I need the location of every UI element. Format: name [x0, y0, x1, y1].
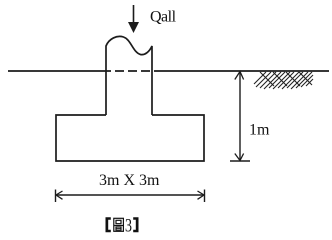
ground line dashed segment (column centerline) [102, 70, 154, 72]
svg-text:3m X 3m: 3m X 3m [99, 172, 160, 189]
bottom dimension line 3m X 3m [56, 190, 205, 203]
caption glyph tu (figure) [114, 218, 124, 231]
caption bracket right [133, 217, 138, 232]
depth dimension line 1m [230, 72, 250, 162]
svg-text:Qall: Qall [150, 9, 177, 26]
caption bracket left [106, 217, 111, 232]
footing outline [56, 115, 204, 161]
svg-text:1m: 1m [249, 122, 270, 139]
ground line right segment [154, 70, 329, 72]
svg-text:3: 3 [125, 216, 132, 237]
ground line left segment [8, 70, 102, 72]
soil hatch [254, 72, 313, 89]
load arrow Qall [128, 5, 139, 33]
column with break-line top [106, 36, 152, 115]
